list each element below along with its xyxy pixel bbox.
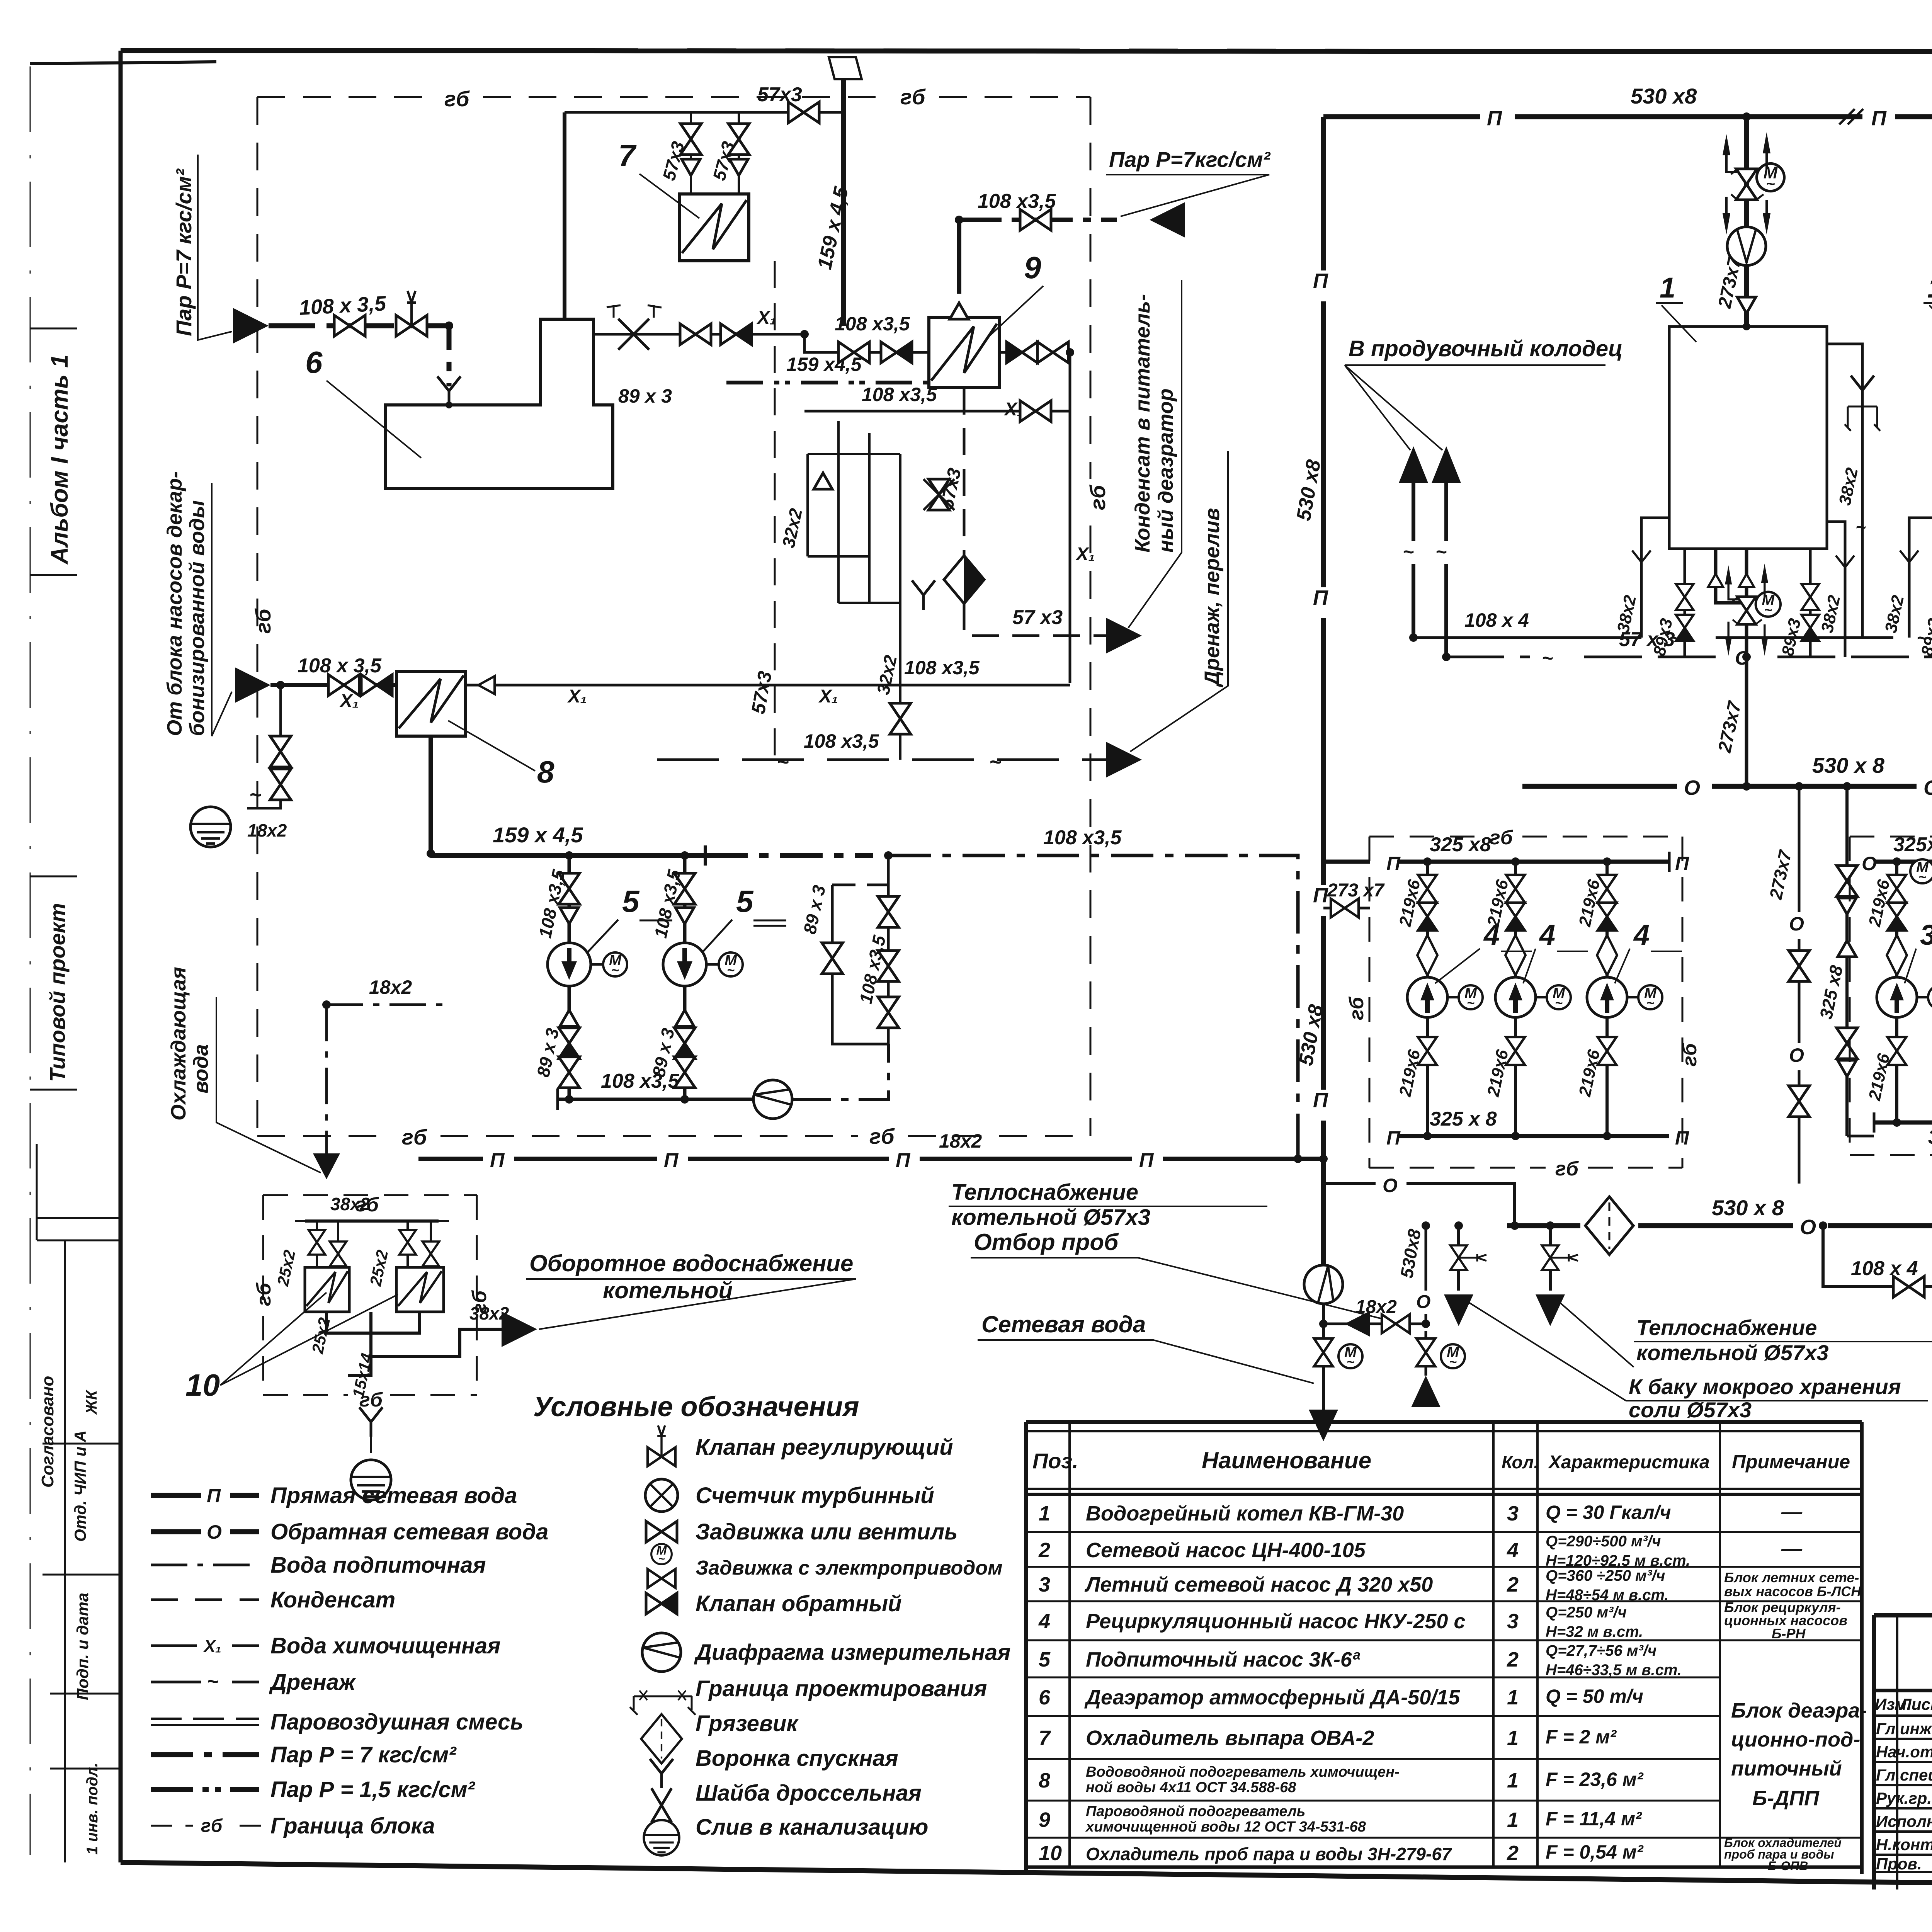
svg-text:3: 3	[1507, 1610, 1519, 1633]
svg-text:Кол.: Кол.	[1502, 1452, 1539, 1472]
svg-text:Рециркуляционный насос НКУ-25: Рециркуляционный насос НКУ-250 с	[1086, 1610, 1465, 1633]
svg-text:5: 5	[1039, 1648, 1051, 1671]
svg-text:108 х3,5: 108 х3,5	[804, 730, 879, 752]
svg-text:325 х8: 325 х8	[1430, 833, 1491, 856]
svg-text:108 х3,5: 108 х3,5	[978, 190, 1056, 213]
legend line: Вода химочищенная	[151, 1645, 259, 1647]
riser 159x4,5 with flag	[841, 79, 846, 326]
svg-text:—: —	[1781, 1500, 1803, 1524]
legend line: Вода подпиточная	[151, 1564, 259, 1566]
legend symbol: Клапан регулирующий	[648, 1425, 675, 1466]
svg-text:8: 8	[537, 755, 554, 789]
svg-text:ный деазратор: ный деазратор	[1154, 388, 1177, 553]
svg-text:Б-ОПВ: Б-ОПВ	[1768, 1859, 1808, 1873]
svg-text:Типовой проект: Типовой проект	[45, 903, 70, 1082]
feed pump U5 column 2	[648, 855, 743, 1099]
dirt trap on return header	[1585, 1197, 1633, 1255]
svg-text:9: 9	[1039, 1808, 1050, 1832]
svg-text:Грязевик: Грязевик	[696, 1711, 799, 1736]
svg-text:Вода химочищенная: Вода химочищенная	[270, 1633, 500, 1658]
svg-text:Альбом I часть 1: Альбом I часть 1	[46, 354, 73, 565]
svg-text:108 х3,5: 108 х3,5	[1043, 827, 1122, 849]
svg-text:10: 10	[1039, 1842, 1062, 1865]
recirculation pump 4.3 НКУ-250с	[1605, 862, 1609, 1136]
svg-text:108 х 4: 108 х 4	[1464, 609, 1529, 631]
svg-text:3: 3	[1920, 919, 1932, 951]
svg-text:F = 23,6 м²: F = 23,6 м²	[1546, 1769, 1644, 1790]
cooler outlet piping	[327, 1312, 506, 1376]
svg-text:~: ~	[249, 783, 262, 806]
svg-text:гб: гб	[251, 608, 275, 634]
svg-text:Граница проектирования: Граница проектирования	[696, 1676, 987, 1701]
U9 outlet valves	[999, 352, 1070, 683]
svg-text:П: П	[1675, 853, 1689, 874]
svg-text:108 х 3,5: 108 х 3,5	[298, 292, 387, 320]
legend symbol: Задвижка или вентиль	[646, 1521, 677, 1542]
steam heater U9	[929, 317, 999, 388]
svg-text:108 х3,5: 108 х3,5	[862, 384, 937, 405]
svg-text:О: О	[1383, 1175, 1398, 1196]
boiler 1 КВ-ГМ-30 feed drop	[1744, 117, 1749, 327]
svg-text:гб: гб	[402, 1125, 427, 1149]
chem water line X1 from deaerator to U9	[594, 334, 929, 352]
svg-text:П: П	[1487, 107, 1502, 130]
svg-text:Пар Р = 7 кгс/см²: Пар Р = 7 кгс/см²	[270, 1742, 457, 1767]
svg-text:Конденсат в питатель-: Конденсат в питатель-	[1131, 294, 1154, 553]
svg-text:Слив в канализацию: Слив в канализацию	[696, 1815, 928, 1840]
svg-text:Q = 30 Гкал/ч: Q = 30 Гкал/ч	[1546, 1502, 1671, 1523]
svg-text:2: 2	[1507, 1842, 1519, 1865]
dirt trap	[944, 556, 984, 604]
svg-text:О: О	[1789, 913, 1804, 935]
svg-text:530 х 8: 530 х 8	[1812, 753, 1885, 777]
svg-text:П: П	[1386, 853, 1401, 874]
flow nozzle boiler 1	[1727, 227, 1766, 265]
svg-text:Х₁: Х₁	[818, 686, 838, 707]
svg-text:7: 7	[618, 138, 637, 173]
svg-text:~: ~	[777, 750, 789, 774]
condensate dash line over cluster	[726, 381, 927, 384]
svg-text:П: П	[1313, 884, 1328, 907]
svg-text:4: 4	[1038, 1610, 1050, 1633]
svg-text:Q=27,7÷56 м³/ч: Q=27,7÷56 м³/ч	[1546, 1642, 1656, 1659]
svg-text:7: 7	[1039, 1726, 1051, 1750]
svg-text:1: 1	[1507, 1686, 1519, 1709]
svg-text:Q=290÷500 м³/ч: Q=290÷500 м³/ч	[1546, 1533, 1661, 1550]
svg-text:6: 6	[1039, 1686, 1051, 1709]
svg-text:9: 9	[1024, 250, 1041, 285]
svg-text:3: 3	[1507, 1502, 1519, 1525]
svg-text:Теплоснабжение: Теплоснабжение	[1636, 1315, 1817, 1340]
drain riser О	[1425, 1226, 1427, 1324]
svg-text:57х3: 57х3	[757, 83, 802, 106]
svg-text:Согласовано: Согласовано	[38, 1376, 57, 1488]
svg-text:Вода подпиточная: Вода подпиточная	[270, 1553, 486, 1578]
svg-text:Поз.: Поз.	[1032, 1449, 1078, 1473]
svg-text:57 х3: 57 х3	[1012, 606, 1063, 629]
condensate line 57x3 vertical	[774, 261, 776, 760]
svg-text:10: 10	[185, 1368, 220, 1402]
svg-text:Лист: Лист	[1899, 1695, 1932, 1713]
branch down from X1 to sewage	[247, 685, 281, 808]
svg-text:Пар Р = 1,5 кгс/см²: Пар Р = 1,5 кгс/см²	[270, 1777, 475, 1802]
svg-text:530 х 8: 530 х 8	[1712, 1196, 1784, 1220]
svg-text:Охлаждающая: Охлаждающая	[167, 967, 190, 1121]
svg-text:4: 4	[1483, 919, 1500, 951]
deaerator U6 (ДА-50/15) outline	[385, 319, 613, 488]
svg-text:гб: гб	[1085, 485, 1110, 510]
svg-text:F = 11,4 м²: F = 11,4 м²	[1546, 1808, 1642, 1830]
svg-text:вода: вода	[189, 1044, 213, 1094]
sewer drain symbol below block 10	[351, 1460, 391, 1500]
emergency makeup line 108x4	[1823, 1226, 1932, 1287]
summer pump discharge header	[1874, 1121, 1932, 1125]
svg-text:~: ~	[1855, 517, 1866, 537]
blowdown collecting line 108x4	[1413, 636, 1932, 639]
svg-text:П: П	[896, 1149, 911, 1172]
steam inlet arrow	[233, 308, 269, 344]
svg-text:гб: гб	[900, 85, 926, 109]
svg-text:57 х 3: 57 х 3	[1619, 628, 1675, 651]
legend line: Пар Р = 1,5 кгс/см²	[151, 1787, 259, 1792]
svg-text:108 х 3,5: 108 х 3,5	[298, 655, 382, 677]
svg-text:18х2: 18х2	[939, 1130, 982, 1152]
svg-text:ционно-под-: ционно-под-	[1731, 1728, 1860, 1751]
legend line: Конденсат	[151, 1599, 259, 1601]
svg-text:Н.контр.: Н.контр.	[1876, 1835, 1932, 1854]
svg-text:Пров.: Пров.	[1876, 1855, 1922, 1873]
funnel and sewer below block 10	[359, 1407, 383, 1437]
chem water inlet arrow	[235, 667, 270, 703]
return bottom header 530x8	[1507, 1223, 1932, 1228]
block boundary гб dashed box	[257, 97, 1090, 1136]
svg-text:Шайба дроссельная: Шайба дроссельная	[696, 1781, 922, 1806]
svg-text:Подпиточный насос 3К-6ª: Подпиточный насос 3К-6ª	[1086, 1648, 1361, 1671]
svg-text:гб: гб	[1345, 996, 1368, 1020]
svg-text:3: 3	[1039, 1573, 1050, 1596]
svg-text:Нач.отд.: Нач.отд.	[1876, 1743, 1932, 1761]
legend symbol: Счетчик турбинный	[645, 1479, 678, 1512]
boiler 1 drain branch right	[1827, 522, 1845, 657]
boiler 1 air vent branch	[1827, 344, 1862, 638]
svg-text:ной воды 4х11 ОСТ 34.588-68: ной воды 4х11 ОСТ 34.588-68	[1086, 1779, 1296, 1796]
svg-text:Н=32 м в.ст.: Н=32 м в.ст.	[1546, 1623, 1643, 1640]
legend line: Паровоздушная смесь	[151, 1718, 259, 1720]
svg-text:Паровоздушная смесь: Паровоздушная смесь	[270, 1709, 524, 1735]
sample cooler vessels	[305, 1267, 349, 1312]
makeup water line to right	[888, 855, 1298, 1159]
svg-text:Дренаж, перелив: Дренаж, перелив	[1201, 508, 1224, 687]
svg-text:П: П	[1675, 1127, 1689, 1149]
svg-text:1: 1	[1507, 1769, 1519, 1792]
salt tank branch	[1549, 1226, 1552, 1291]
svg-text:Охладитель выпара ОВА-2: Охладитель выпара ОВА-2	[1086, 1726, 1374, 1750]
valves above coolers	[317, 1221, 431, 1267]
svg-text:Клапан регулирующий: Клапан регулирующий	[696, 1435, 953, 1460]
svg-text:1: 1	[1660, 272, 1675, 304]
svg-text:Задвижка с электроприводом: Задвижка с электроприводом	[696, 1557, 1003, 1579]
blowdown risers with arrows	[1412, 479, 1415, 638]
svg-text:4: 4	[1633, 919, 1650, 951]
svg-text:П: П	[490, 1149, 505, 1172]
recirculation pump 4.1 НКУ-250с	[1426, 862, 1429, 1136]
svg-text:1 инв. подл.: 1 инв. подл.	[84, 1763, 101, 1855]
condensate 57x3 from U9 to dirt trap	[964, 388, 1117, 636]
drain cluster under deaerator 32x2	[808, 421, 900, 738]
control cross valves	[618, 319, 649, 350]
svg-text:325 х8: 325 х8	[1928, 1126, 1932, 1148]
svg-text:П: П	[1313, 1088, 1328, 1112]
svg-text:Сетевая вода: Сетевая вода	[981, 1311, 1146, 1337]
sewer drain symbol	[190, 807, 231, 847]
svg-text:О: О	[207, 1521, 222, 1543]
return line О to pump hall	[1323, 1184, 1515, 1226]
svg-text:8: 8	[1039, 1769, 1050, 1792]
boiler 2 drain branch left	[1909, 518, 1932, 638]
steam to U9: funnel and pipe	[950, 303, 968, 319]
svg-text:Задвижка или вентиль: Задвижка или вентиль	[696, 1519, 957, 1544]
svg-text:Пар Р=7 кгс/см²: Пар Р=7 кгс/см²	[172, 168, 196, 336]
boiler 1 vessel	[1669, 327, 1827, 549]
svg-text:Прямая сетевая вода: Прямая сетевая вода	[270, 1483, 517, 1508]
legend symbol: Грязевик	[641, 1714, 682, 1764]
svg-text:1: 1	[1507, 1726, 1519, 1750]
svg-text:Н=46÷33,5 м в.ст.: Н=46÷33,5 м в.ст.	[1546, 1662, 1682, 1679]
svg-text:1: 1	[1927, 272, 1932, 304]
measuring diaphragm on makeup line	[753, 1080, 792, 1119]
svg-text:~: ~	[1917, 627, 1928, 649]
svg-text:~: ~	[989, 750, 1002, 774]
svg-text:F = 0,54 м²: F = 0,54 м²	[1546, 1841, 1644, 1863]
riser 325x8	[1845, 786, 1849, 1136]
svg-text:2: 2	[1507, 1573, 1519, 1596]
svg-text:химочищенной воды 12 ОСТ 34-53: химочищенной воды 12 ОСТ 34-531-68	[1085, 1819, 1366, 1835]
control valve on steam inlet	[396, 291, 427, 336]
recirc suction header 325x8	[1399, 860, 1669, 864]
svg-text:Условные обозначения: Условные обозначения	[533, 1391, 859, 1422]
legend symbol: Шайба дроссельная	[651, 1788, 672, 1822]
svg-text:О: О	[1416, 1292, 1430, 1312]
svg-text:гб: гб	[1490, 827, 1514, 849]
svg-text:Диафрагма измерительная: Диафрагма измерительная	[694, 1640, 1010, 1665]
svg-text:Q=360 ÷250 м³/ч: Q=360 ÷250 м³/ч	[1546, 1567, 1665, 1584]
svg-text:108 х 4: 108 х 4	[1851, 1257, 1918, 1280]
svg-text:530 х8: 530 х8	[1631, 84, 1697, 108]
svg-text:Исполн.: Исполн.	[1876, 1812, 1932, 1830]
valve on steam inlet	[334, 315, 365, 336]
svg-text:4: 4	[1539, 919, 1555, 951]
svg-text:П: П	[664, 1149, 679, 1172]
legend symbol: Диафрагма измерительная	[642, 1633, 681, 1672]
summer pump block U3 dashed box	[1850, 837, 1932, 1155]
recirculation pump 4.2 НКУ-250с	[1514, 862, 1517, 1136]
pump suction line 108x3,5	[558, 1098, 753, 1101]
summer pump suction header	[1874, 860, 1932, 864]
svg-text:Рук.гр.: Рук.гр.	[1876, 1789, 1932, 1807]
svg-text:Счетчик турбинный: Счетчик турбинный	[696, 1483, 934, 1508]
svg-text:Конденсат: Конденсат	[270, 1587, 395, 1612]
svg-text:Клапан обратный: Клапан обратный	[696, 1591, 901, 1616]
legend line: Дренаж	[151, 1681, 259, 1684]
svg-text:2: 2	[1507, 1648, 1519, 1671]
legend line: Обратная сетевая вода	[151, 1529, 259, 1534]
legend symbol: Граница проектирования	[634, 1696, 692, 1710]
summer network pump 3.1 Д320х50	[1895, 862, 1898, 1122]
sampling branch 18x2	[1304, 1265, 1343, 1304]
svg-text:К баку мокрого хранения: К баку мокрого хранения	[1629, 1374, 1901, 1399]
svg-text:Н=48÷54 м в.ст.: Н=48÷54 м в.ст.	[1546, 1587, 1669, 1604]
svg-text:108 х3,5: 108 х3,5	[904, 657, 980, 679]
svg-text:Обратная сетевая вода: Обратная сетевая вода	[270, 1519, 548, 1544]
svg-text:гб: гб	[444, 87, 470, 111]
legend line: Пар Р = 7 кгс/см²	[151, 1752, 259, 1757]
svg-text:Летний сетевой насос Д 320 х50: Летний сетевой насос Д 320 х50	[1084, 1573, 1433, 1596]
svg-text:П: П	[1313, 586, 1328, 609]
boiler 1 drain branch left	[1641, 518, 1669, 638]
svg-text:1: 1	[1039, 1502, 1050, 1525]
return header О 530x8	[1522, 784, 1932, 789]
svg-text:П: П	[1871, 107, 1887, 130]
feed header 159x4,5	[431, 736, 705, 855]
svg-text:гб: гб	[1555, 1158, 1579, 1180]
svg-text:Охладитель проб пара и воды 3Н: Охладитель проб пара и воды 3Н-279-67	[1086, 1844, 1452, 1864]
legend symbol: Задвижка с электроприводом	[651, 1544, 672, 1565]
svg-text:питочный: питочный	[1731, 1757, 1842, 1780]
legend symbol: Воронка спускная	[650, 1759, 673, 1788]
legend line: Прямая сетевая вода	[151, 1493, 259, 1498]
heat supply branch	[1457, 1226, 1460, 1291]
feed pump U5 column 1	[533, 855, 627, 1099]
svg-text:273 х7: 273 х7	[1327, 880, 1385, 901]
svg-text:Подп. и дата: Подп. и дата	[73, 1593, 92, 1700]
boiler drain line 57x3	[1446, 656, 1932, 658]
svg-text:~: ~	[1403, 541, 1414, 563]
svg-text:П: П	[1313, 269, 1328, 293]
recirc discharge header 325x8	[1399, 1134, 1669, 1138]
svg-text:Водоводяной подогреватель химо: Водоводяной подогреватель химочищен-	[1086, 1764, 1400, 1780]
38x2 header in block 10	[305, 1219, 439, 1223]
svg-text:П: П	[1386, 1127, 1401, 1149]
svg-text:—: —	[1781, 1537, 1803, 1560]
svg-text:Блок летних сете-: Блок летних сете-	[1724, 1570, 1859, 1585]
vent cooler U7 (ОВА-2)	[680, 194, 749, 261]
motor gate valve on boiler 1 feed	[1723, 132, 1784, 235]
svg-text:В продувочный колодец: В продувочный колодец	[1349, 336, 1623, 361]
svg-text:гб: гб	[1679, 1043, 1701, 1066]
svg-text:2: 2	[1038, 1539, 1050, 1562]
svg-text:Воронка спускная: Воронка спускная	[696, 1746, 898, 1771]
svg-text:О: О	[1923, 776, 1932, 799]
svg-text:Теплоснабжение: Теплоснабжение	[951, 1180, 1138, 1205]
svg-text:Q = 50 т/ч: Q = 50 т/ч	[1546, 1685, 1643, 1707]
svg-text:38х2: 38х2	[330, 1194, 370, 1214]
svg-text:гб: гб	[253, 1282, 275, 1306]
pipes 57x3 above U7	[565, 112, 844, 194]
svg-text:4: 4	[1507, 1539, 1519, 1562]
legend symbol: Слив в канализацию	[644, 1820, 679, 1855]
heat supply line П	[418, 1157, 1323, 1161]
svg-text:18х2: 18х2	[1355, 1297, 1397, 1317]
svg-text:Б-РН: Б-РН	[1772, 1626, 1806, 1641]
svg-text:Q=250 м³/ч: Q=250 м³/ч	[1546, 1604, 1627, 1621]
riser О between headers	[1798, 786, 1801, 1184]
svg-text:П: П	[1139, 1149, 1154, 1172]
svg-text:Характеристика: Характеристика	[1548, 1452, 1710, 1473]
svg-text:гб: гб	[869, 1124, 895, 1148]
svg-text:Н=120÷92,5 м в.ст.: Н=120÷92,5 м в.ст.	[1546, 1552, 1690, 1569]
svg-text:Х₁: Х₁	[567, 686, 587, 707]
svg-text:О: О	[1789, 1044, 1804, 1066]
svg-text:5: 5	[736, 884, 754, 918]
svg-text:Сетевой насос ЦН-400-105: Сетевой насос ЦН-400-105	[1086, 1539, 1366, 1562]
svg-text:6: 6	[305, 345, 323, 379]
svg-text:Блок деаэра-: Блок деаэра-	[1731, 1699, 1867, 1722]
svg-text:О: О	[1800, 1216, 1816, 1239]
svg-text:159 х 4,5: 159 х 4,5	[493, 823, 583, 847]
svg-text:~: ~	[1435, 541, 1447, 563]
svg-text:вых насосов Б-ЛСН: вых насосов Б-ЛСН	[1724, 1583, 1861, 1599]
left margin boxes	[37, 1144, 121, 1862]
svg-text:Граница блока: Граница блока	[270, 1813, 435, 1838]
bypass valves row 325x8	[1323, 860, 1370, 864]
second 108x3,5 line below U9	[804, 410, 1070, 413]
svg-text:Пароводяной подогреватель: Пароводяной подогреватель	[1086, 1803, 1305, 1820]
drain line to arrow	[657, 759, 1117, 761]
sample cooler block U10 dashed box	[263, 1195, 477, 1395]
svg-text:18х2: 18х2	[247, 820, 287, 840]
legend line: Граница блока	[151, 1825, 270, 1827]
svg-text:Гл.инж.пр.: Гл.инж.пр.	[1876, 1719, 1932, 1738]
svg-text:108 х3,5: 108 х3,5	[835, 313, 910, 335]
bypass loop 89x3	[832, 855, 888, 1044]
X1 main line	[270, 683, 396, 687]
svg-text:Отд. ЧИП и А: Отд. ЧИП и А	[71, 1430, 89, 1542]
svg-text:Примечание: Примечание	[1732, 1451, 1850, 1473]
svg-text:18х2: 18х2	[369, 976, 412, 998]
svg-text:Дренаж: Дренаж	[269, 1670, 357, 1695]
main supply header П 530x8 top	[1323, 114, 1932, 119]
svg-text:О: О	[1684, 776, 1700, 799]
svg-text:О: О	[1862, 853, 1877, 874]
svg-text:котельной Ø57х3: котельной Ø57х3	[1636, 1340, 1829, 1365]
svg-text:F = 2 м²: F = 2 м²	[1546, 1726, 1617, 1748]
steam pipe 108x3,5	[269, 326, 449, 386]
legend symbol: Клапан обратный	[646, 1593, 677, 1614]
svg-text:325х8: 325х8	[1893, 833, 1932, 856]
svg-text:Х₁: Х₁	[203, 1637, 221, 1656]
svg-text:Х₁: Х₁	[756, 308, 776, 328]
svg-text:~: ~	[207, 1670, 218, 1693]
svg-text:Гл.спец.: Гл.спец.	[1876, 1766, 1932, 1784]
svg-text:гб: гб	[201, 1816, 223, 1836]
svg-text:Оборотное водоснабжение: Оборотное водоснабжение	[529, 1250, 853, 1276]
svg-text:котельной Ø57х3: котельной Ø57х3	[951, 1205, 1150, 1230]
motor valve on boiler 1 recirculation	[1725, 564, 1781, 656]
svg-text:Б-ДПП: Б-ДПП	[1752, 1787, 1820, 1810]
recirculation pump block U4 dashed box	[1369, 837, 1682, 1168]
svg-text:~: ~	[1542, 647, 1553, 669]
svg-text:325 х 8: 325 х 8	[1430, 1108, 1497, 1130]
water heater U8	[396, 672, 466, 736]
drain funnel into deaerator	[437, 376, 461, 406]
svg-text:Наименование: Наименование	[1202, 1447, 1371, 1473]
svg-text:Водогрейный котел КВ-ГМ-30: Водогрейный котел КВ-ГМ-30	[1086, 1502, 1404, 1525]
svg-text:Пар Р=7кгс/см²: Пар Р=7кгс/см²	[1109, 147, 1271, 172]
svg-text:1: 1	[1507, 1808, 1519, 1832]
svg-text:ЖК: ЖК	[83, 1389, 100, 1415]
boiler 1 bottom valves	[1685, 549, 1810, 657]
svg-text:5: 5	[622, 884, 640, 918]
